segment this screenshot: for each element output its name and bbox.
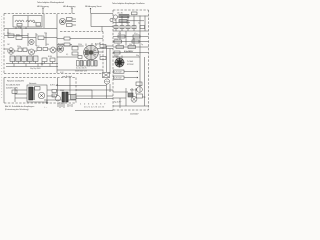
svg-text:0,1μ 300V: 0,1μ 300V xyxy=(124,51,133,53)
wire right rails xyxy=(120,31,145,92)
wire row31 xyxy=(113,30,149,32)
capacitor C26 xyxy=(78,56,82,59)
wire bus lower1 xyxy=(6,63,58,65)
value labels left block xyxy=(7,27,101,74)
tube V8 xyxy=(55,96,60,101)
wire bottom bus xyxy=(75,90,113,111)
transformer T3 xyxy=(115,56,125,68)
svg-text:Si 0,5A Gl 250V: Si 0,5A Gl 250V xyxy=(6,84,21,87)
motor M1 xyxy=(104,79,109,84)
wire row47 xyxy=(4,49,60,51)
svg-text:1 2 3 4 5 6 7: 1 2 3 4 5 6 7 xyxy=(80,103,106,105)
svg-text:Teilschaltplan Wiedergabeteil: Teilschaltplan Wiedergabeteil xyxy=(37,1,64,4)
coil L2 xyxy=(26,20,35,22)
page edge dots xyxy=(1,16,3,100)
wire rail xyxy=(56,14,58,73)
svg-text:1k: 1k xyxy=(114,20,116,22)
resistor R21 xyxy=(128,46,136,49)
resistor R25 xyxy=(64,37,70,40)
resistor R18 xyxy=(114,40,122,43)
wire arrow k2 xyxy=(124,77,138,78)
wire row41 xyxy=(113,41,149,43)
tube V10 xyxy=(137,87,143,93)
resistor R17 xyxy=(133,35,140,38)
svg-text:20 21 22 23 24 25: 20 21 22 23 24 25 xyxy=(84,106,104,108)
wire row92 b xyxy=(113,92,128,98)
capacitor C21 xyxy=(137,94,143,98)
ground G1 xyxy=(41,62,43,66)
svg-text:25p: 25p xyxy=(44,33,47,35)
tube V4 xyxy=(29,49,35,55)
svg-text:30p: 30p xyxy=(136,55,139,57)
svg-text:Tr 5kΩ: Tr 5kΩ xyxy=(127,61,133,63)
svg-text:220k: 220k xyxy=(78,44,82,46)
svg-text:(Fortsetzung der Schaltung): (Fortsetzung der Schaltung) xyxy=(5,108,29,111)
coil L3 xyxy=(18,48,22,52)
wire arrow k1 xyxy=(124,71,138,72)
svg-text:Netztr.: Netztr. xyxy=(114,55,120,58)
wire row52 xyxy=(113,52,149,54)
svg-text:HF-Ausgang: HF-Ausgang xyxy=(63,5,76,8)
wire grid row xyxy=(4,29,36,38)
resistor R16 xyxy=(118,35,125,38)
battery B1 xyxy=(58,102,64,108)
wire arrow input xyxy=(42,8,43,14)
transformer T1 xyxy=(84,43,101,60)
tube V3 xyxy=(8,48,14,54)
resistor R3 xyxy=(8,34,14,38)
resistor R1 xyxy=(67,18,73,21)
wire bus top xyxy=(4,28,57,30)
svg-text:OC 45: OC 45 xyxy=(117,13,124,15)
coupling box between blocks xyxy=(91,14,113,32)
capacitor bank C6-C10 xyxy=(10,56,15,62)
wire rails bottom xyxy=(120,88,145,108)
tube V2 xyxy=(29,39,34,44)
capacitor C17 xyxy=(132,26,136,29)
tube V9 xyxy=(113,15,117,19)
tube V6 xyxy=(57,46,63,52)
chassis unit box xyxy=(27,85,47,102)
wire row38 xyxy=(57,39,103,45)
svg-text:0,1μ: 0,1μ xyxy=(134,33,137,35)
wire plate xyxy=(66,19,76,25)
wire interblock xyxy=(56,46,113,99)
svg-text:50k: 50k xyxy=(129,44,132,46)
svg-text:110/220V: 110/220V xyxy=(130,114,139,116)
wire row57 xyxy=(113,56,140,58)
resistor R5 xyxy=(72,47,78,51)
resistor R26 xyxy=(64,43,70,46)
svg-text:0,25 50V: 0,25 50V xyxy=(114,78,122,80)
svg-text:350V 350V 12V: 350V 350V 12V xyxy=(75,70,88,72)
svg-text:2p: 2p xyxy=(141,44,143,46)
wire row46 xyxy=(57,46,103,70)
tube V1 xyxy=(59,18,65,24)
svg-text:10k: 10k xyxy=(117,44,120,46)
right block dashed border xyxy=(113,9,149,11)
capacitor C1 xyxy=(36,23,41,27)
crystal X1 xyxy=(119,15,129,18)
wire t1 out xyxy=(98,49,114,53)
capacitor C16 xyxy=(126,26,130,29)
svg-text:NF-Ausgang Verst.: NF-Ausgang Verst. xyxy=(85,5,102,8)
resistor R24 xyxy=(71,95,77,100)
svg-text:0,1μ: 0,1μ xyxy=(7,33,10,35)
wire feed vertical xyxy=(14,88,16,102)
svg-text:250p: 250p xyxy=(17,46,21,48)
svg-text:0,1 0,1 50 25: 0,1 0,1 50 25 xyxy=(76,68,87,70)
svg-text:1k: 1k xyxy=(99,43,101,45)
resistor R13 xyxy=(100,57,106,60)
svg-text:10k: 10k xyxy=(46,44,49,46)
svg-text:0,1: 0,1 xyxy=(66,54,68,56)
svg-text:0,5μ: 0,5μ xyxy=(36,46,39,48)
capacitor C19 xyxy=(136,82,142,86)
wire v28 xyxy=(28,33,57,46)
capacitor C13 xyxy=(52,94,57,97)
svg-text:Teilschaltplan Empfänger-Oszil: Teilschaltplan Empfänger-Oszillator xyxy=(112,2,145,5)
wire out rows xyxy=(44,78,113,100)
wire row106 xyxy=(113,105,149,107)
resistor R19 xyxy=(132,40,139,43)
resistor R22 xyxy=(114,51,120,54)
resistor R12 xyxy=(100,45,106,48)
coil L6 xyxy=(119,20,127,23)
wire arrow output xyxy=(71,8,72,14)
svg-text:EZ80 12: EZ80 12 xyxy=(130,90,137,92)
svg-text:NT 302: NT 302 xyxy=(127,64,134,66)
choke L5 xyxy=(62,92,65,102)
wire antenna xyxy=(43,14,45,28)
svg-text:25μ 6,3V~: 25μ 6,3V~ xyxy=(114,102,122,104)
capacitor C14 xyxy=(114,26,118,29)
value labels right block xyxy=(114,20,143,57)
wire t2 leads xyxy=(15,90,52,98)
lower block dashed border xyxy=(4,77,76,79)
svg-text:5k: 5k xyxy=(36,35,38,37)
wire bus lower2 xyxy=(6,66,58,68)
tube V7 rectifier xyxy=(38,92,45,99)
svg-text:50μ 50μ 350V: 50μ 50μ 350V xyxy=(30,68,41,70)
resistor R15 xyxy=(132,12,138,15)
wire bus23 xyxy=(113,22,130,24)
wire rails top xyxy=(116,16,145,32)
svg-text:220p: 220p xyxy=(114,39,118,41)
coil L4 xyxy=(23,48,27,52)
wire bank ticks xyxy=(12,62,52,67)
capacitor C20 xyxy=(128,93,133,97)
tube V11 xyxy=(131,96,137,102)
capacitor C5 xyxy=(43,48,48,51)
capacitor C15 xyxy=(120,26,124,29)
svg-text:5p: 5p xyxy=(138,23,140,25)
resistor bank R6-R11 xyxy=(77,61,80,67)
svg-text:0,25 50V: 0,25 50V xyxy=(114,72,122,74)
resistor R23 xyxy=(12,90,17,93)
svg-text:2x300V 50Hz: 2x300V 50Hz xyxy=(6,88,18,90)
svg-text:Bild 10: Schaltbild des Empfän: Bild 10: Schaltbild des Empfängers xyxy=(5,105,34,108)
capacitor C11 xyxy=(72,52,78,55)
left block dashed border xyxy=(4,13,76,15)
svg-text:2k: 2k xyxy=(99,55,101,57)
svg-text:47k: 47k xyxy=(118,33,121,35)
wire row36 xyxy=(113,36,149,38)
resistor R20 xyxy=(116,46,124,49)
capacitor C25 xyxy=(50,58,55,62)
svg-text:EF80: EF80 xyxy=(16,35,20,37)
wire row47 xyxy=(113,46,149,48)
svg-text:EL84: EL84 xyxy=(48,56,52,58)
svg-text:Netzteil 110/220V: Netzteil 110/220V xyxy=(7,80,25,83)
resistor R4 xyxy=(38,36,44,40)
coil L1 xyxy=(15,20,24,22)
relay K1 xyxy=(114,70,125,73)
capacitor C3 xyxy=(16,36,22,40)
capacitor C24 xyxy=(42,58,47,62)
switch S1 xyxy=(103,73,110,78)
tuner box with coils L1 L2 xyxy=(13,16,42,28)
relay K2 xyxy=(114,76,125,79)
tube V5 xyxy=(50,47,56,53)
svg-text:2k: 2k xyxy=(126,23,128,25)
svg-text:50μ: 50μ xyxy=(143,97,146,99)
wire v9 out xyxy=(118,16,149,21)
jack J1 xyxy=(110,18,113,21)
ground G2 xyxy=(46,100,48,104)
trimmer C2 xyxy=(17,24,22,27)
transformer T2 winding xyxy=(29,87,33,100)
capacitor C23 xyxy=(35,87,41,91)
wire arrow NF xyxy=(90,8,91,14)
capacitor C12 xyxy=(52,90,57,93)
capacitor C18 xyxy=(140,26,145,29)
svg-text:ECC81: ECC81 xyxy=(58,44,64,46)
svg-text:0,5μ: 0,5μ xyxy=(18,27,21,29)
capacitor C4 xyxy=(37,48,42,51)
resistor R2 xyxy=(67,24,73,27)
